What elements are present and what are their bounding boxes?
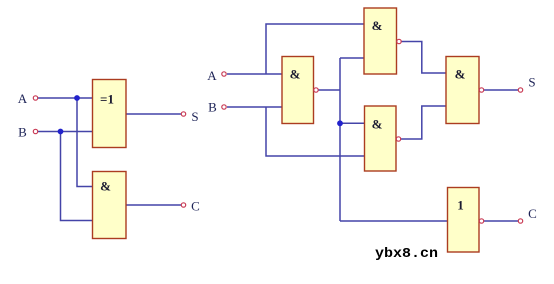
wire node to NAND U5 input 1 [340,122,365,124]
svg-text:ybx8.cn: ybx8.cn [375,247,438,262]
wire A to XOR input 1 [38,97,92,99]
svg-text:C: C [191,199,200,214]
junction on wire A [74,95,80,101]
nand-gate U6 & [446,57,479,124]
nand-gate U5 & [365,106,397,171]
nand-gate U3 & [282,57,314,124]
svg-text:B: B [18,125,27,140]
output terminal C (left) [181,203,185,207]
wire B branch down to AND input 2 [61,132,93,221]
nand-gate U4 & [364,8,397,74]
wire U7 output to C [483,220,518,222]
junction on node vertical bus [337,120,343,126]
wire A to NAND U3 input 1 [227,73,282,75]
input terminal B (left) [33,129,37,133]
svg-text:=1: =1 [100,92,114,107]
wire B to XOR input 2 [38,131,92,133]
wire node to NAND U4 input 2 [340,57,364,59]
bubble U7 output [479,219,483,223]
wire AND output to C [126,204,181,206]
input terminal A (left) [33,96,37,100]
and-gate U2 & [93,172,127,239]
bubble U5 output [396,137,400,141]
wire node vertical bus [339,58,341,221]
svg-text:1: 1 [457,198,464,213]
wire U4 output to NAND U6 input 1 [401,42,446,74]
svg-text:&: & [100,179,111,194]
not-gate U7 1 [448,188,480,253]
input terminal B (right) [222,105,226,109]
wire XOR output to S [126,113,181,115]
bubble U6 output [479,88,483,92]
output terminal C (right) [518,219,522,223]
bubble U3 output [314,88,318,92]
svg-text:&: & [372,18,383,33]
svg-text:&: & [455,67,466,82]
svg-text:&: & [290,67,301,82]
output terminal S (left) [181,112,185,116]
svg-text:B: B [208,100,217,115]
xor-gate U1 =1 [93,80,127,148]
wire U5 output to NAND U6 input 2 [401,106,447,139]
svg-text:S: S [191,109,198,124]
output terminal S (right) [518,88,522,92]
svg-text:S: S [528,75,535,90]
wire B branch down to NAND U5 input 2 [266,107,365,156]
svg-text:C: C [528,206,537,221]
svg-text:A: A [207,68,217,83]
bubble U4 output [397,39,401,43]
wire A branch down to AND input 1 [77,98,92,187]
wire U3 output to node [318,89,340,91]
svg-text:A: A [18,91,28,106]
wire A branch up to NAND U4 input 1 [266,24,364,74]
wire node to NOT U7 input [340,220,448,222]
input terminal A (right) [222,72,226,76]
svg-text:&: & [372,117,383,132]
wire B to NAND U3 input 2 [227,106,282,108]
wire U6 output to S [483,89,518,91]
junction on wire B [58,129,64,135]
